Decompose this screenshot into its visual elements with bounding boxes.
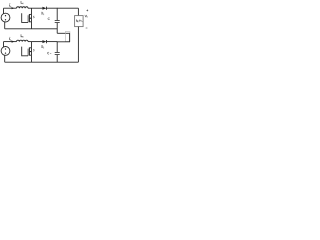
wire C2 bottom lead <box>56 55 58 62</box>
transistor Q2 <box>29 47 31 49</box>
V1 plus mark <box>5 15 6 16</box>
node junction top rail / C1 <box>57 8 58 9</box>
capacitor C1 <box>55 20 60 22</box>
wire Q1 drain lead <box>31 8 33 14</box>
wire mid rail right <box>47 41 58 43</box>
label minus terminal <box>86 27 87 29</box>
wire box lead bottom <box>77 27 79 63</box>
wire Q2 source lead <box>31 55 33 62</box>
label i L1 <box>8 5 10 7</box>
current arrow iL1 <box>12 7 15 9</box>
wire V2 bottom lead <box>4 55 6 62</box>
label L1 <box>21 1 23 3</box>
wire V2 top lead <box>3 42 5 47</box>
wire load bottom lead <box>57 41 70 43</box>
voltage source V1 <box>1 13 10 22</box>
node junction mid rail <box>57 41 58 42</box>
label Vb <box>85 15 87 17</box>
transistor Q1 <box>29 13 31 15</box>
wire V1 top lead <box>3 8 5 14</box>
current arrow iL2 <box>12 41 15 43</box>
wire V1 bottom lead <box>4 22 6 29</box>
wire Q1 source lead <box>31 22 33 29</box>
wire Q2 drain lead <box>31 42 33 48</box>
wire C2 top lead <box>56 42 58 52</box>
wire top rail right <box>47 7 79 9</box>
label L2 <box>21 35 23 37</box>
wire mid rail middle <box>28 41 42 43</box>
label plus terminal <box>87 10 88 11</box>
V2 minus mark <box>5 52 6 53</box>
label D2 <box>42 46 43 48</box>
wire phase1 return rail <box>5 28 58 30</box>
voltage source V2 <box>1 47 10 56</box>
label S1 <box>33 16 34 18</box>
label i L2 <box>8 38 10 40</box>
V1 minus mark <box>5 19 6 20</box>
wire top rail middle <box>28 7 42 9</box>
resistor load box R <box>65 32 70 42</box>
inductor L2 <box>17 40 29 41</box>
V2 plus mark <box>5 48 6 49</box>
wire box lead top <box>77 8 79 15</box>
wire C1 bottom lead <box>56 23 58 34</box>
diode D1 <box>42 7 46 10</box>
label C1 <box>48 18 50 20</box>
wire mid rail left <box>4 41 17 43</box>
wire C1 top lead <box>56 8 58 20</box>
wire top rail left <box>4 7 17 9</box>
capacitor C2 <box>55 52 60 54</box>
battery box BAT <box>75 16 84 27</box>
wire load top lead <box>57 32 70 34</box>
wire bottom rail <box>5 61 79 63</box>
label D1 <box>42 12 43 14</box>
diode D2 <box>42 40 46 43</box>
label bat text <box>77 20 83 23</box>
inductor L1 <box>17 7 29 8</box>
label S2 <box>33 49 34 51</box>
label C2 <box>47 52 49 54</box>
